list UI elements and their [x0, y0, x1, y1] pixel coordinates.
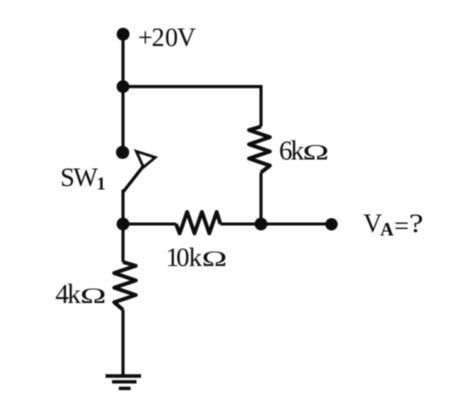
resistor 6k ohm (vertical) [249, 127, 270, 173]
svg-text:+20V: +20V [138, 23, 196, 52]
node dot A (below switch) [117, 218, 130, 231]
value label 10kOhm [166, 242, 227, 272]
svg-text:10k: 10k [166, 242, 203, 272]
wire from switch blade bottom down to node A [121, 190, 124, 225]
terminal node dot VA [325, 218, 337, 230]
resistor 4k ohm (vertical) [114, 262, 136, 310]
switch SW1 blade [124, 164, 146, 192]
node dot switch fixed contact [116, 146, 129, 159]
svg-text:1: 1 [97, 173, 106, 193]
svg-text:?: ? [409, 209, 423, 238]
svg-text:Ω: Ω [303, 139, 329, 164]
node dot output junction [255, 218, 268, 231]
label VA = ? [363, 209, 423, 241]
wire 10k resistor to output node and VA terminal [220, 222, 331, 225]
wire from junction node right and down to top of 6k resistor [123, 87, 261, 127]
svg-text:6k: 6k [279, 135, 305, 165]
node dot junction top [117, 80, 130, 93]
wire 4k resistor down to ground [121, 310, 124, 376]
svg-text:=: = [394, 212, 409, 241]
wire node A down to 4k resistor [121, 224, 124, 262]
ground symbol [106, 376, 142, 388]
label SW1 [60, 163, 105, 193]
svg-text:Ω: Ω [80, 283, 106, 308]
wire from +20V node down through junction to switch contact [121, 34, 124, 152]
svg-text:SW: SW [60, 163, 98, 192]
wire node A to 10k resistor [123, 222, 176, 225]
wire from bottom of 6k resistor down to output node [259, 173, 262, 225]
value label 6kOhm [279, 135, 329, 165]
node dot +20V supply [117, 28, 130, 41]
resistor 10k ohm (horizontal) [176, 212, 220, 234]
value label 4kOhm [55, 279, 106, 309]
svg-text:Ω: Ω [202, 246, 227, 271]
switch SW1 open arrowhead [137, 152, 156, 168]
svg-text:A: A [380, 221, 394, 241]
svg-text:4k: 4k [55, 279, 81, 309]
